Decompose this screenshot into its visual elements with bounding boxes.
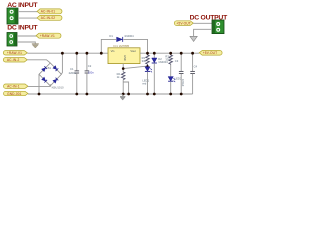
wire LED1 to bottom rail [147,72,149,94]
wire AC pin2 to net label [18,17,37,19]
wire R2 to bottom rail [122,80,124,94]
ground arrow (DC output) [190,36,197,41]
wire AC-1 to bridge bottom corner [28,84,50,86]
svg-text:KBU1010: KBU1010 [52,85,64,89]
wire R2 jog to bottom rail [123,82,128,94]
svg-text:AC-IN-01: AC-IN-01 [41,10,56,14]
terminal block J3 (DC output) [212,20,224,34]
capacitor C3 branch [175,53,185,94]
wire R3 to LED2 [170,65,172,77]
LED LED2 [168,77,182,83]
wire DC pin2 to ground [17,42,35,44]
wire AC pin1 to net label [18,11,37,13]
net label AC-1 (left low) [4,84,29,89]
junction dot jog rail [127,93,130,96]
diode D1 [109,34,134,42]
svg-text:+RAW-V1: +RAW-V1 [7,51,22,55]
ground symbol (bottom middle) [120,94,125,100]
svg-text:AC-IN-2: AC-IN-2 [7,58,20,62]
wire bottom rail [28,93,193,95]
wire main rail left (to IC Vin) [27,52,108,54]
junction dot R3 top [169,52,172,55]
net label AC-2 (left mid) [3,58,27,63]
ground symbol (DC input) [32,44,39,48]
junction dot rail/bridge+ [61,52,64,55]
wire +5V label to output terminal [193,22,212,24]
svg-text:100uF: 100uF [181,79,185,87]
wire bridge left corner to bottom rail [38,74,40,94]
svg-text:100n: 100n [88,70,94,74]
svg-text:D1: D1 [109,34,113,38]
junction dot C1 bottom [75,93,78,96]
net label +RAW (DC input) [36,33,61,38]
wire DC pin1 to net label [17,35,36,37]
svg-text:Vin: Vin [111,49,115,53]
net label AC-2 (bottom) [37,15,62,20]
resistor R3 branch [165,53,172,64]
voltage regulator IC1 LM7805 [108,44,140,64]
svg-text:2200u: 2200u [69,71,77,75]
capacitor C1 branch [69,53,80,94]
net label +RAW (rail, left) [3,51,27,56]
diode top-right [53,66,58,71]
svg-text:330: 330 [142,59,147,63]
net label +5V (DC output) [174,21,193,26]
wire rail right of IC [140,52,199,54]
resistor R2 (under IC) [117,72,125,80]
terminal block J1 (AC input) [7,8,18,24]
diode D2 branch [152,53,169,94]
junction dot bottom rail/bridge- [38,93,41,96]
net label +5V (rail right end) [199,51,222,56]
svg-text:C4: C4 [194,64,198,68]
junction dot D2 top [153,52,156,55]
LED LED1 [142,67,152,86]
net label AC-1 (top) [37,9,62,14]
junction dot C2 top [86,52,89,55]
diode top-left [42,66,47,71]
junction dot C1 top [75,52,78,55]
svg-text:LED2: LED2 [175,77,182,81]
junction dot C3 bottom [180,93,183,96]
junction dot LED1 bottom [146,93,149,96]
svg-text:B1: B1 [48,66,52,70]
capacitor C2 branch [85,53,95,94]
junction dot C3 top [180,52,183,55]
junction dot C2 bottom [86,93,89,96]
svg-text:Vout: Vout [130,49,136,53]
svg-text:C1: C1 [70,67,74,71]
svg-text:+5V-OUT: +5V-OUT [176,22,190,26]
wire output terminal pin2 to ground arrow [194,29,212,36]
junction dot LED2 bottom [169,93,172,96]
svg-text:+5V-OUT: +5V-OUT [203,51,217,55]
terminal block J2 (DC input) [7,33,17,47]
svg-text:+RAW-V1: +RAW-V1 [40,34,55,38]
svg-text:1N4004: 1N4004 [124,34,134,38]
svg-text:330: 330 [165,58,170,62]
wire bridge right corner to rail [61,53,62,74]
svg-text:C2: C2 [88,64,92,68]
junction dot ADJ node [122,67,125,70]
junction dot D1 left [100,52,103,55]
svg-text:AC-IN-1: AC-IN-1 [7,85,20,89]
junction dot D2 bottom [153,93,156,96]
wire D1 bypass (over regulator) [101,39,116,53]
net label GND (left bottom) [4,91,29,96]
bridge rectifier B1 diamond [39,63,64,89]
junction dot R1 top [146,52,149,55]
svg-text:GND: GND [123,55,126,61]
wire AC-2 to bridge top corner [27,60,50,63]
svg-text:red: red [142,82,146,86]
wire ADJ node to R1/LED1 node [123,66,147,69]
diode bottom-left [42,77,47,82]
svg-text:GND-001: GND-001 [7,92,22,96]
wire IC GND pin down [122,64,124,72]
resistor R1 [142,53,150,66]
svg-text:DC INPUT: DC INPUT [7,24,38,31]
svg-text:AC-IN-02: AC-IN-02 [41,16,56,20]
svg-text:C3: C3 [175,59,179,63]
junction dot C4 top [191,52,194,55]
wire LED2 to bottom rail [170,81,172,94]
capacitor C4 branch [190,53,197,94]
junction dot GND pin rail [122,93,125,96]
junction dot R1/LED1 [146,65,148,67]
diode bottom-right [53,78,58,83]
